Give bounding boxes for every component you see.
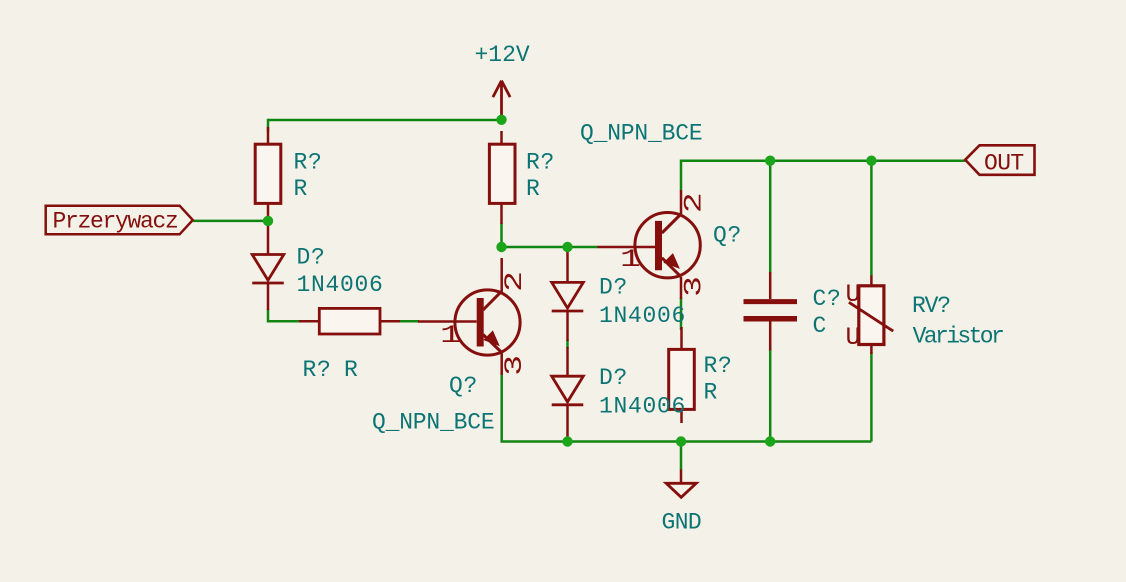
- resistor R1: [255, 127, 281, 220]
- svg-text:Q?: Q?: [713, 223, 742, 249]
- ground GND: [662, 469, 702, 535]
- wire W11 Q1 emitter to bottom rail: [502, 374, 872, 442]
- svg-text:R?: R?: [303, 357, 332, 383]
- Q1 pin number 3: [501, 355, 529, 376]
- wire W6 R2 bottom to node B: [500, 223, 503, 247]
- R2 reference label R?: [526, 150, 555, 176]
- Q2 reference label Q?: [713, 223, 742, 249]
- R1 value label R: [294, 176, 308, 202]
- resistor R3 horizontal: [299, 308, 400, 334]
- D2 reference label D?: [599, 275, 628, 301]
- Q1 pin number 2: [501, 271, 529, 292]
- svg-text:R?: R?: [704, 353, 733, 379]
- junction bottom rail C1: [765, 436, 775, 446]
- wire W14 bottom rail to GND: [680, 442, 683, 471]
- R3 reference label R?: [303, 357, 332, 383]
- R4 reference label R?: [704, 353, 733, 379]
- Q2 pin number 3: [681, 276, 709, 297]
- wire W8 top rail to OUT: [681, 161, 965, 191]
- svg-text:2: 2: [681, 192, 709, 213]
- R3 value label R: [344, 357, 358, 383]
- svg-text:D?: D?: [599, 275, 628, 301]
- RV1 value label Varistor: [913, 323, 1003, 349]
- label Przerywacz: [46, 206, 193, 235]
- D3 reference label D?: [599, 365, 628, 391]
- global label OUT: [965, 145, 1034, 176]
- wire W9 top rail to C1: [769, 161, 772, 273]
- svg-text:C?: C?: [813, 286, 842, 312]
- svg-text:R?: R?: [294, 150, 323, 176]
- svg-text:1N4006: 1N4006: [599, 303, 686, 329]
- svg-text:1: 1: [440, 322, 461, 350]
- transistor Q2: [598, 190, 701, 299]
- wire W16 RV1 bottom to rail: [870, 352, 873, 442]
- svg-text:R: R: [344, 357, 358, 383]
- svg-text:R: R: [704, 380, 718, 406]
- junction top rail C1: [765, 156, 775, 166]
- svg-text:RV?: RV?: [912, 293, 950, 319]
- C1 value label C: [813, 313, 827, 339]
- svg-text:U: U: [846, 280, 861, 309]
- RV1 pin name U bottom: [846, 323, 861, 352]
- junction bottom rail D3: [562, 436, 572, 446]
- capacitor C1: [744, 272, 798, 350]
- svg-text:Q_NPN_BCE: Q_NPN_BCE: [580, 121, 702, 147]
- svg-text:D?: D?: [297, 245, 326, 271]
- svg-text:3: 3: [681, 276, 709, 297]
- svg-text:1N4006: 1N4006: [599, 394, 686, 420]
- resistor R4: [669, 327, 695, 423]
- svg-text:Q?: Q?: [449, 373, 478, 399]
- varistor RV1: [849, 276, 893, 355]
- svg-text:Q_NPN_BCE: Q_NPN_BCE: [372, 410, 494, 436]
- diode D1: [252, 221, 284, 310]
- wire W2 left vertical to R1: [267, 119, 270, 132]
- wire W7 node B to Q2 base: [502, 246, 599, 249]
- svg-text:R: R: [526, 176, 540, 202]
- wire W13 Q2 emitter to R4: [680, 298, 683, 330]
- RV1 reference label RV?: [912, 293, 950, 319]
- wire W12 between D2 and D3: [566, 340, 569, 348]
- Q2 value label Q_NPN_BCE: [580, 121, 702, 147]
- D1 reference label D?: [297, 245, 326, 271]
- wire W10 top rail to RV1: [870, 161, 873, 276]
- svg-text:Varistor: Varistor: [913, 323, 1003, 349]
- wire W3 label to node A: [193, 220, 268, 223]
- svg-text:Przerywacz: Przerywacz: [53, 209, 178, 235]
- svg-text:+12V: +12V: [475, 42, 530, 68]
- D1 value label 1N4006: [297, 272, 384, 298]
- Q2 pin number 1: [620, 246, 641, 274]
- svg-text:U: U: [846, 323, 861, 352]
- power symbol +12V: [475, 42, 530, 120]
- svg-text:1: 1: [620, 246, 641, 274]
- R4 value label R: [704, 380, 718, 406]
- Q1 reference label Q?: [449, 373, 478, 399]
- svg-text:2: 2: [501, 271, 529, 292]
- diode D3: [552, 347, 584, 441]
- resistor R2: [489, 131, 515, 224]
- transistor Q1: [418, 258, 520, 375]
- R2 value label R: [526, 176, 540, 202]
- wire W1 top-left horizontal: [268, 119, 502, 122]
- wire W15 C1 bottom to rail: [769, 349, 772, 442]
- svg-text:R: R: [294, 176, 308, 202]
- Q1 pin number 1: [440, 322, 461, 350]
- junction at +12V node: [496, 115, 506, 125]
- junction bottom rail GND: [676, 436, 686, 446]
- svg-text:1N4006: 1N4006: [297, 272, 384, 298]
- svg-text:GND: GND: [662, 509, 702, 535]
- svg-text:OUT: OUT: [984, 150, 1024, 176]
- svg-text:C: C: [813, 313, 827, 339]
- Q2 pin number 2: [681, 192, 709, 213]
- wire W4 below D1 with corner: [268, 309, 301, 321]
- C1 reference label C?: [813, 286, 842, 312]
- wire W5 R3 to Q1 base: [378, 320, 419, 323]
- svg-text:R?: R?: [526, 150, 555, 176]
- R1 reference label R?: [294, 150, 323, 176]
- D3 value label 1N4006: [599, 394, 686, 420]
- svg-text:3: 3: [501, 355, 529, 376]
- D2 value label 1N4006: [599, 303, 686, 329]
- Q1 value label Q_NPN_BCE: [372, 410, 494, 436]
- diode D2: [552, 248, 584, 341]
- junction node B diode branch: [562, 242, 572, 252]
- junction node B R2/Q1 collector: [496, 242, 506, 252]
- RV1 pin name U top: [846, 280, 861, 309]
- junction top rail RV1: [866, 156, 876, 166]
- svg-text:D?: D?: [599, 365, 628, 391]
- junction node A Przerywacz/R1/D1: [263, 216, 273, 226]
